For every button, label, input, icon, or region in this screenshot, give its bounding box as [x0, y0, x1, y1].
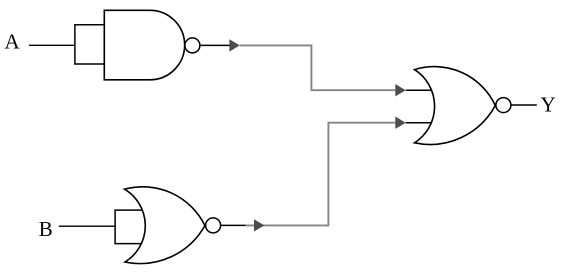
- wire net2 gray elbow: [246, 123, 396, 226]
- NOR U2 input bracket: [115, 210, 146, 244]
- wire A input: [29, 44, 76, 46]
- svg-text:Y: Y: [541, 93, 556, 117]
- NAND U1 body: [104, 10, 184, 80]
- arrowhead 3: [254, 219, 264, 231]
- svg-text:B: B: [39, 217, 53, 241]
- NOR U3 output bubble: [496, 98, 511, 113]
- wire Y output: [511, 104, 537, 106]
- NOR U2 output bubble: [206, 218, 221, 233]
- wire NOR U2 output: [221, 224, 246, 226]
- wire B input: [59, 225, 116, 227]
- NAND U1 input bracket: [75, 25, 104, 64]
- wire stub into NOR U3 bottom input: [406, 122, 432, 124]
- wire stub into NOR U3 top input: [406, 89, 434, 91]
- svg-text:A: A: [5, 30, 21, 54]
- NOR U2 body: [125, 187, 205, 264]
- wire net1 gray elbow: [240, 45, 395, 90]
- arrowhead 2: [395, 84, 405, 96]
- NAND U1 output bubble: [185, 38, 200, 53]
- NOR U3 body: [415, 67, 496, 145]
- arrowhead 1: [229, 39, 239, 51]
- wire NAND output: [200, 44, 230, 46]
- arrowhead 4: [395, 117, 405, 129]
